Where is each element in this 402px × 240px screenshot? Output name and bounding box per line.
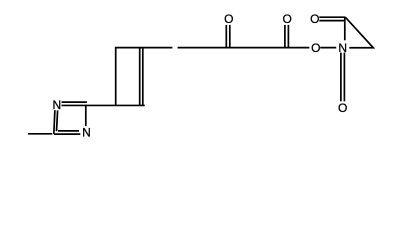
- bond N to carbonyl C vertical: [344, 17, 346, 40]
- svg-text:O: O: [311, 41, 320, 55]
- square left edge + top edge + bond to chain: [116, 48, 173, 106]
- svg-text:O: O: [310, 12, 319, 26]
- bond C4=N3 ring bottom main line: [54, 133, 80, 135]
- svg-text:O: O: [224, 12, 233, 26]
- ketone C=O double bond line 2: [229, 25, 231, 48]
- N=O bottom double bond line 2: [343, 53, 345, 102]
- bond ring C2 to square + square bottom edge: [86, 104, 145, 106]
- ester C=O double bond line 2: [287, 25, 289, 48]
- square right edge double bond line 1: [139, 48, 141, 106]
- svg-text:N: N: [82, 126, 91, 140]
- bond N1=C4 ring left double bond line 2: [57, 110, 58, 131]
- bond ester O to N: [320, 47, 336, 49]
- chain bond segment to ester: [178, 47, 310, 49]
- svg-text:N: N: [52, 98, 61, 112]
- succinimide C=O top double bond line 1: [319, 16, 345, 18]
- ketone C=O double bond line 1: [225, 25, 227, 48]
- bond C4=N3 ring bottom double bond inner line: [58, 130, 79, 132]
- N=O bottom double bond line 1: [340, 53, 342, 102]
- square right edge double bond line 2: [142, 48, 144, 106]
- bond carbonyl C to CH2 diagonal + bond CH2 to N: [345, 17, 373, 48]
- svg-text:N: N: [338, 41, 347, 55]
- svg-text:O: O: [283, 12, 292, 26]
- bond N1=C2 ring top double bond inner line: [62, 101, 87, 103]
- bond N1=C4 ring left double bond line 1: [54, 110, 55, 134]
- ester C=O double bond line 1: [284, 25, 286, 48]
- bond methyl to ring C4: [28, 133, 52, 135]
- svg-text:O: O: [338, 101, 347, 115]
- succinimide C=O top double bond line 2: [319, 20, 344, 22]
- bond N1=C2 ring top main line + bond C2-N3 ring right edge: [62, 105, 86, 126]
